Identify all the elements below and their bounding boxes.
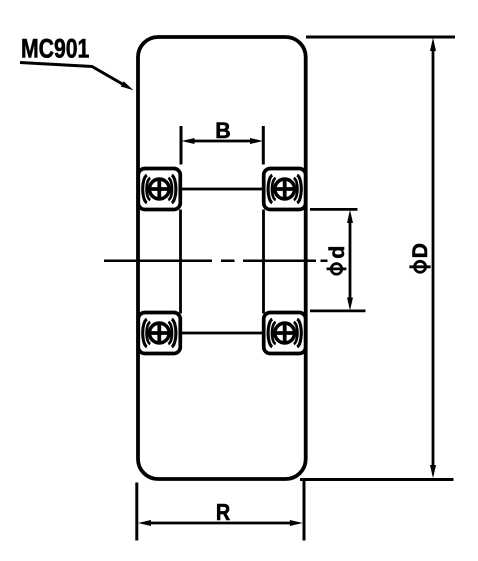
svg-text:D: D bbox=[409, 243, 432, 258]
svg-text:d: d bbox=[325, 246, 349, 259]
svg-text:R: R bbox=[216, 500, 230, 526]
svg-text:MC901: MC901 bbox=[21, 35, 89, 65]
svg-text:B: B bbox=[215, 118, 230, 144]
